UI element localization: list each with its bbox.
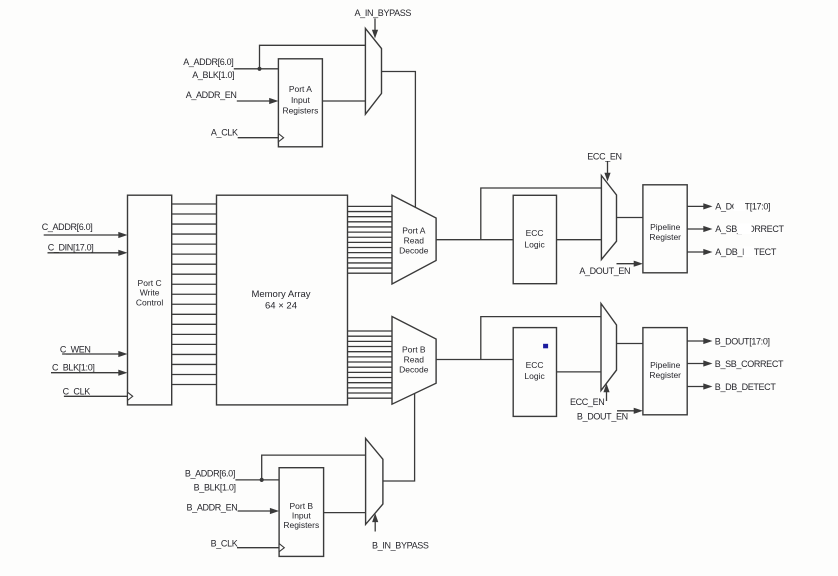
wire output arrow A_DOUT[17:0] — [687, 205, 704, 207]
wire ECC Logic A output to A output mux — [557, 239, 602, 241]
wire A output mux to Pipeline Register A — [617, 217, 643, 219]
wire C_DIN arrow into Port C Write Control — [48, 252, 121, 254]
svg-text:Port B: Port B — [402, 344, 426, 354]
svg-text:64 × 24: 64 × 24 — [265, 300, 297, 311]
block ECC Logic A — [513, 195, 556, 283]
bus Memory Array to Port B Read Decode (14 lines) — [348, 331, 393, 398]
svg-text:Port B: Port B — [289, 501, 313, 511]
svg-text:Register: Register — [649, 232, 681, 242]
junction dot A bypass tap — [257, 67, 261, 71]
svg-text:Port C: Port C — [138, 278, 162, 288]
svg-text:B_ADDR[6.0]: B_ADDR[6.0] — [185, 469, 235, 479]
mux A output (trapezoid) — [601, 176, 616, 260]
mux B output (trapezoid) — [601, 304, 617, 391]
svg-text:Read: Read — [404, 236, 425, 246]
block Port C Write Control — [128, 195, 172, 405]
svg-text:C_CLK: C_CLK — [63, 387, 91, 397]
svg-text:Write: Write — [140, 288, 160, 298]
svg-text:Control: Control — [136, 297, 164, 307]
svg-text:B_DOUT[17:0]: B_DOUT[17:0] — [715, 336, 770, 346]
block Port A Read Decode (trapezoid) — [392, 195, 436, 284]
block Port B Input Registers — [279, 468, 324, 557]
wire A_ADDR/A_BLK to Port A Input Registers — [234, 68, 279, 70]
wire Port A Read Decode output to ECC Logic A — [436, 239, 513, 241]
svg-text:Port A: Port A — [289, 84, 312, 94]
wire Port B Read Decode output to ECC Logic B — [436, 359, 513, 361]
svg-text:B_BLK[1.0]: B_BLK[1.0] — [194, 482, 236, 492]
svg-text:A_IN_BYPASS: A_IN_BYPASS — [355, 8, 412, 18]
wire A bypass tap to mux top input — [260, 45, 366, 69]
wire A_DOUT_EN arrow into Pipeline Register A — [617, 263, 636, 265]
wire output arrow A_SB_CORRECT — [687, 228, 704, 230]
svg-text:A_BLK[1.0]: A_BLK[1.0] — [192, 70, 234, 80]
svg-text:B_CLK: B_CLK — [211, 538, 238, 548]
svg-text:B_SB_CORRECT: B_SB_CORRECT — [715, 359, 784, 369]
wire output arrow B_DOUT[17:0] — [687, 340, 704, 342]
wire B_DOUT_EN arrow into Pipeline Register B — [617, 410, 635, 412]
wire Port A input mux output to Port A Read Decode — [382, 72, 416, 208]
svg-text:B_IN_BYPASS: B_IN_BYPASS — [372, 541, 429, 551]
svg-text:Decode: Decode — [399, 245, 429, 255]
wire Port A Input Registers output to mux — [322, 100, 365, 102]
svg-text:C_DIN[17.0]: C_DIN[17.0] — [48, 243, 94, 253]
wire Port B Input Registers output to mux — [324, 512, 366, 514]
svg-text:C_BLK[1:0]: C_BLK[1:0] — [52, 363, 95, 373]
bus Port C Write Control to Memory Array (19 lines) — [172, 204, 217, 385]
svg-text:Port A: Port A — [402, 225, 425, 235]
wire B_IN_BYPASS arrow into Port B input mux — [374, 522, 376, 532]
wire output arrow B_DB_DETECT — [687, 386, 704, 388]
wire ECC Logic B output to B output mux — [557, 371, 602, 373]
svg-text:Registers: Registers — [283, 520, 319, 530]
block Port A Input Registers — [278, 59, 322, 147]
wire Port B input mux output to Port B Read Decode — [383, 393, 415, 481]
wire B output mux to Pipeline Register B — [617, 343, 643, 345]
wire C_ADDR arrow into Port C Write Control — [44, 234, 120, 236]
wire A_ADDR_EN arrow into Port A Input Registers — [237, 100, 271, 102]
svg-text:Registers: Registers — [282, 105, 318, 115]
white smudge over A output labels — [734, 201, 746, 212]
block Memory Array 64x24 — [217, 195, 348, 405]
wire B_CLK into Port B Input Registers — [237, 547, 279, 549]
block Pipeline Register A — [643, 185, 687, 273]
svg-text:Input: Input — [291, 95, 311, 105]
svg-text:Logic: Logic — [524, 240, 545, 250]
svg-text:A_ADDR[6.0]: A_ADDR[6.0] — [183, 57, 233, 67]
clock input marker Port B Input Registers — [279, 544, 284, 552]
svg-text:A_ADDR_EN: A_ADDR_EN — [186, 90, 237, 100]
wire B bypass vertical tap — [481, 317, 601, 360]
svg-text:A_CLK: A_CLK — [211, 128, 238, 138]
svg-text:C_ADDR[6.0]: C_ADDR[6.0] — [42, 222, 93, 232]
block Port B Read Decode (trapezoid) — [392, 317, 436, 405]
svg-text:ECC: ECC — [526, 228, 544, 238]
svg-text:Input: Input — [292, 510, 312, 520]
mux B input bypass (Port B input mux) — [366, 438, 383, 524]
block Pipeline Register B — [643, 328, 687, 415]
wire B_ADDR_EN arrow into Port B Input Registers — [238, 510, 272, 512]
wire ECC_EN arrow into B output mux — [606, 392, 608, 402]
svg-text:Logic: Logic — [524, 371, 545, 381]
wire B bypass tap to mux top input — [262, 455, 366, 480]
svg-text:B_DB_DETECT: B_DB_DETECT — [715, 382, 777, 392]
wire C_WEN arrow into Port C Write Control — [62, 353, 120, 355]
svg-text:ECC_EN: ECC_EN — [587, 151, 621, 161]
wire output arrow A_DB_DETECT — [687, 251, 704, 253]
wire ECC_EN arrow into A output mux — [607, 162, 609, 174]
svg-text:Pipeline: Pipeline — [650, 222, 681, 232]
blue pixel artifact in ECC Logic B — [543, 344, 548, 349]
svg-text:B_ADDR_EN: B_ADDR_EN — [187, 502, 238, 512]
svg-text:ECC_EN: ECC_EN — [570, 397, 604, 407]
svg-text:B_DOUT_EN: B_DOUT_EN — [577, 411, 628, 421]
svg-text:Register: Register — [649, 370, 681, 380]
block ECC Logic B — [513, 328, 556, 417]
svg-text:ECC: ECC — [526, 360, 544, 370]
svg-text:A_DOUT_EN: A_DOUT_EN — [579, 266, 630, 276]
wire C_BLK arrow into Port C Write Control — [51, 372, 120, 374]
svg-text:Decode: Decode — [399, 364, 429, 374]
svg-text:Pipeline: Pipeline — [650, 360, 681, 370]
wire A_IN_BYPASS arrow into Port A input mux — [374, 19, 376, 32]
svg-text:Memory Array: Memory Array — [251, 289, 310, 300]
wire A bypass vertical tap — [481, 188, 602, 240]
svg-text:C_WEN: C_WEN — [60, 345, 91, 355]
wire C_CLK into Port C Write Control — [64, 395, 128, 397]
junction dot B bypass tap — [260, 478, 264, 482]
clock input marker Port C Write Control — [128, 392, 133, 400]
bus Memory Array to Port A Read Decode (14 lines) — [348, 206, 393, 273]
mux A input bypass (Port A input mux) — [365, 28, 381, 114]
wire A_CLK into Port A Input Registers — [238, 137, 279, 139]
clock input marker Port A Input Registers — [278, 134, 283, 142]
wire output arrow B_SB_CORRECT — [687, 363, 704, 365]
svg-text:Read: Read — [404, 354, 425, 364]
wire B_ADDR/B_BLK to Port B Input Registers — [235, 479, 279, 481]
